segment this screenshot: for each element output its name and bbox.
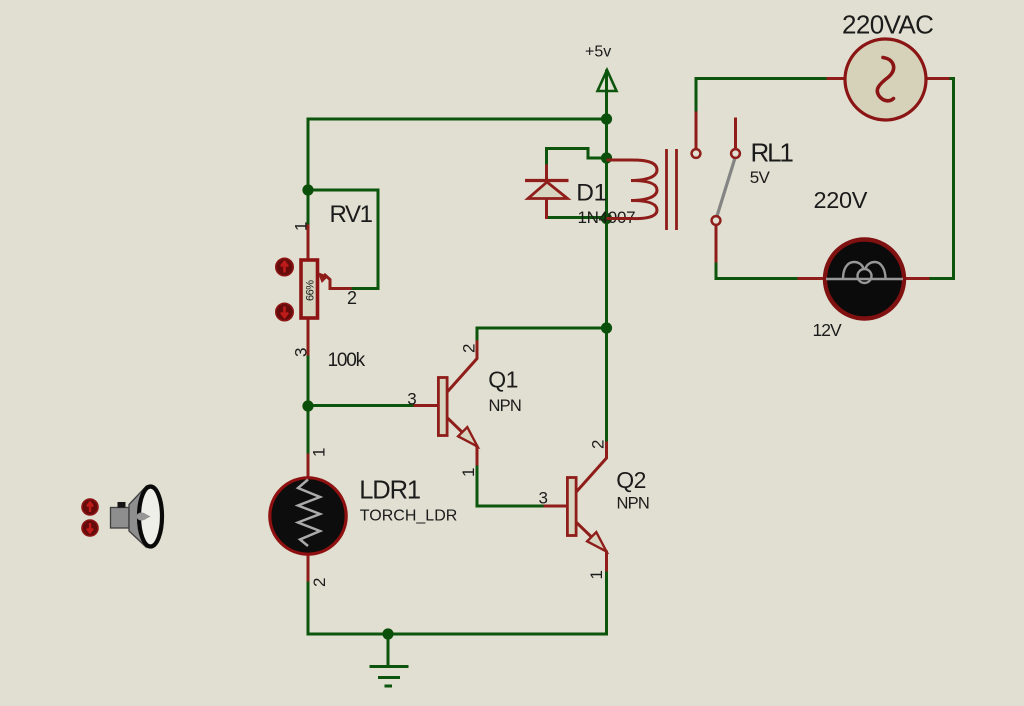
pin D1 top: [545, 166, 548, 180]
lamp body: [825, 240, 904, 319]
wire Q1 emitter to Q2 base: [477, 464, 545, 506]
relay RL1 core bars: [665, 149, 668, 230]
svg-text:1: 1: [459, 468, 478, 477]
svg-text:220V: 220V: [814, 187, 868, 213]
wire Q2 emitter down to bottom rail: [605, 570, 608, 634]
junction node base: [302, 400, 313, 411]
pin Q1 collector: [449, 342, 478, 391]
svg-text:RL1: RL1: [751, 138, 794, 168]
transistor Q1 base bar: [438, 378, 447, 436]
diode D1 cathode bar: [525, 179, 569, 182]
Q1 emitter arrowhead: [458, 427, 477, 446]
svg-text:Q1: Q1: [488, 367, 517, 393]
wire relay bottom contact to lamp left: [716, 261, 799, 279]
pin LDR pin1: [307, 455, 310, 478]
torch lens ellipse: [139, 487, 162, 547]
wire diode bottom to coil bottom node: [547, 216, 607, 219]
relay armature: [717, 158, 735, 216]
pin RV1 wiper: [325, 275, 350, 289]
lamp filament loop: [858, 269, 872, 283]
lamp filament right hump: [866, 262, 886, 279]
pin Q2 emitter: [578, 524, 607, 571]
power symbol +5v arrow: [598, 70, 617, 91]
wire RV1 top branch: [307, 190, 310, 226]
torch switch nub: [118, 502, 126, 508]
svg-text:100k: 100k: [328, 350, 366, 371]
pin Q1 emitter: [449, 419, 478, 464]
LDR1 zigzag: [298, 480, 320, 547]
AC source sine squiggle: [877, 58, 893, 101]
svg-text:D1: D1: [576, 180, 607, 207]
wire relay left contact up and over to AC source: [696, 79, 828, 114]
svg-text:TORCH_LDR: TORCH_LDR: [360, 508, 458, 525]
svg-text:12V: 12V: [813, 320, 842, 340]
pin lamp left: [799, 277, 826, 280]
svg-text:5V: 5V: [750, 168, 771, 187]
button torch down: [82, 520, 98, 536]
ground symbol: [370, 667, 409, 687]
torch cone: [129, 487, 146, 548]
pin AC source right: [926, 77, 948, 80]
button RV1 down: [276, 303, 293, 320]
svg-text:NPN: NPN: [489, 397, 521, 415]
lamp filament baseline: [826, 278, 903, 280]
relay contact bottom: [712, 216, 721, 225]
wire Q1 collector to vertical rail: [477, 328, 607, 342]
pin lamp right: [904, 277, 928, 280]
pin relay pole stub: [734, 119, 737, 149]
svg-text:3: 3: [407, 389, 416, 408]
RV1 wiper arrowhead: [318, 272, 329, 283]
wire +5v stem down to Q2 collector: [605, 71, 608, 443]
pin LDR pin2: [307, 554, 310, 580]
wire base node to Q1 base: [308, 404, 415, 407]
wire diode top jog from coil node: [547, 149, 607, 170]
wire top horizontal rail RV1 branch to +5v node: [308, 119, 607, 190]
button torch up: [82, 499, 98, 515]
svg-text:+5v: +5v: [585, 44, 611, 61]
wire RV1 wiper loop: [308, 190, 378, 289]
svg-text:1: 1: [587, 570, 606, 579]
pin RV1 pin3: [307, 319, 310, 354]
svg-text:3: 3: [539, 489, 548, 508]
svg-text:1: 1: [310, 448, 329, 457]
button RV1 up: [276, 258, 293, 275]
pin Q2 collector: [578, 443, 607, 491]
pin relay bottom contact stub: [715, 225, 718, 261]
junction node at +5v rail: [601, 113, 612, 124]
junction node collectors: [601, 322, 612, 333]
svg-text:LDR1: LDR1: [359, 477, 420, 505]
pin D1 bottom: [545, 199, 548, 218]
pin AC source left: [828, 77, 845, 80]
junction node RV1 top: [302, 184, 313, 195]
Q2 emitter arrowhead: [587, 532, 606, 551]
svg-text:2: 2: [347, 288, 357, 308]
torch bulb reflector: [137, 513, 147, 521]
pin RV1 pin1: [307, 226, 310, 259]
svg-text:1: 1: [292, 222, 311, 231]
diode D1 triangle: [528, 182, 568, 199]
AC source 220VAC circle: [845, 39, 926, 120]
pin Q1 base: [415, 404, 437, 407]
wire base node down to LDR pin 1: [307, 406, 310, 455]
pin Q2 base: [545, 505, 566, 508]
svg-text:66%: 66%: [305, 280, 317, 301]
svg-text:2: 2: [310, 578, 329, 587]
junction node coil bottom: [601, 213, 612, 224]
pin relay left contact stub: [695, 113, 698, 149]
svg-text:RV1: RV1: [330, 201, 373, 228]
relay contact left: [692, 149, 701, 158]
lamp filament left hump: [843, 262, 864, 279]
wire RV1 bottom to base node: [307, 354, 310, 406]
svg-text:2: 2: [589, 440, 608, 449]
svg-text:3: 3: [292, 348, 311, 357]
torch bulb pointer: [144, 513, 151, 520]
relay contact pole: [731, 149, 740, 158]
torch body: [111, 508, 130, 529]
junction node coil top: [601, 152, 612, 163]
relay RL1 coil: [607, 160, 658, 219]
junction node ground: [382, 628, 393, 639]
potentiometer RV1 body: [301, 260, 318, 318]
transistor Q2 base bar: [567, 478, 576, 536]
svg-text:2: 2: [460, 344, 479, 353]
wire LDR pin 2 to bottom rail: [308, 580, 607, 634]
wire ground stem: [387, 634, 390, 666]
LDR1 body: [270, 478, 346, 554]
wire AC source right down to lamp right: [928, 79, 954, 279]
svg-text:220VAC: 220VAC: [842, 10, 933, 40]
svg-text:Q2: Q2: [616, 467, 645, 493]
svg-text:NPN: NPN: [617, 495, 649, 513]
